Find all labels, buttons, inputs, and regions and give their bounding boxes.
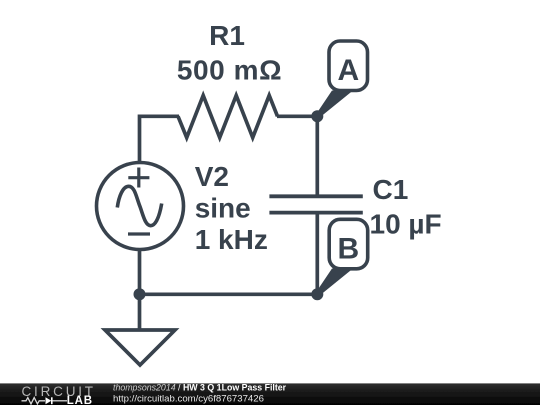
svg-text:1 kHz: 1 kHz [195, 224, 268, 255]
svg-text:http://circuitlab.com/cy6f8767: http://circuitlab.com/cy6f876737426 [113, 393, 264, 404]
sine wave [117, 186, 161, 225]
plus sign [128, 176, 149, 179]
svg-text:C1: C1 [373, 174, 409, 205]
svg-text:A: A [337, 54, 359, 87]
junction node B [311, 288, 323, 300]
bottom wire node B to bottom-left junction [140, 292, 318, 296]
svg-text:10 µF: 10 µF [370, 209, 442, 240]
svg-text:B: B [337, 232, 359, 265]
svg-text:sine: sine [195, 193, 251, 224]
svg-text:500 mΩ: 500 mΩ [177, 55, 282, 86]
svg-text:LAB: LAB [67, 395, 93, 405]
CircuitLab logo [22, 384, 96, 405]
wire V2 top to resistor left terminal [140, 116, 180, 162]
wire V2 bottom to bottom-left junction [138, 250, 142, 294]
svg-text:thompsons2014 / HW 3 Q 1Low Pa: thompsons2014 / HW 3 Q 1Low Pass Filter [113, 382, 287, 392]
junction bottom-left [134, 288, 146, 300]
wire resistor right to node A junction [277, 114, 317, 118]
svg-text:V2: V2 [195, 161, 229, 192]
wire junction to ground [138, 294, 142, 330]
wire C1 bottom plate to node B junction [315, 213, 319, 295]
wire node A junction down to C1 top plate [315, 116, 319, 196]
voltage source V2 [97, 163, 184, 250]
ground [105, 330, 175, 365]
minus sign [128, 232, 150, 235]
capacitor C1 [269, 196, 362, 212]
svg-text:R1: R1 [209, 20, 245, 51]
resistor R1 [178, 95, 278, 137]
node A callout [316, 41, 368, 118]
junction node A [311, 110, 323, 122]
node B callout [316, 219, 368, 296]
